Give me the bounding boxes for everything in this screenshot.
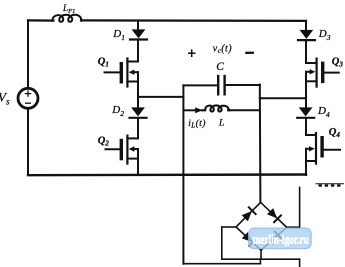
wire tank top branch right: [225, 84, 260, 86]
wire Q2 source to bottom rail: [137, 159, 139, 175]
wire bridge top-right edge: [261, 202, 287, 227]
label iL(t): [188, 118, 206, 130]
svg-text:vc(t): vc(t): [213, 43, 232, 55]
label D4: [317, 105, 330, 119]
svg-text:Q4: Q4: [329, 127, 341, 139]
svg-text:L: L: [218, 119, 224, 129]
diode D2: [131, 107, 145, 116]
wire bridge bottom-right edge: [261, 227, 287, 250]
label minus vc: [246, 52, 252, 54]
wire tank bottom branch right: [228, 109, 260, 111]
wire tank left bottom return: [183, 263, 260, 265]
wire D3 cathode to Q3 drain: [305, 41, 307, 63]
svg-text:Q2: Q2: [98, 135, 110, 147]
wire bottom rail: [28, 173, 306, 176]
wire left column lower: [27, 108, 29, 175]
wire Q4 source to bottom rail: [305, 161, 307, 175]
bridge diode bottom-right: [267, 231, 281, 245]
wire tank left vertical: [182, 85, 184, 263]
label Q1: [98, 56, 109, 68]
current arrow iL: [195, 107, 202, 113]
bridge diode bottom-left: [242, 232, 256, 246]
svg-text:D1: D1: [112, 28, 125, 42]
svg-text:C: C: [216, 61, 224, 73]
wire bridge right vertex horizontal: [287, 226, 300, 228]
label Q2: [98, 135, 110, 147]
svg-text:merlin-igor.ru: merlin-igor.ru: [253, 232, 309, 247]
wire bridge top-left edge: [236, 202, 261, 227]
label D1: [112, 28, 125, 42]
transistor Q2: [106, 136, 139, 164]
svg-text:D3: D3: [318, 28, 331, 42]
transistor Q4: [306, 133, 340, 164]
label D3: [318, 28, 331, 42]
transistor Q3: [306, 59, 339, 87]
wire bridge bottom bus right drop: [299, 259, 301, 266]
continuation dashes right edge: [316, 184, 344, 187]
voltage source Vs: [18, 88, 38, 108]
wire bridge left vertex loop vertical: [221, 227, 223, 259]
label LF1: [62, 3, 75, 15]
diode D1: [132, 29, 146, 38]
wire bridge bottom bus: [222, 258, 300, 260]
wire bridge right vertex riser: [299, 187, 301, 227]
wire tank right vertical to bridge: [259, 85, 262, 203]
wire D1 cathode to Q1 drain: [137, 41, 139, 62]
wire D3 anode: [305, 21, 307, 30]
wire bridge left vertex loop horizontal: [222, 226, 236, 228]
wire D1 anode: [137, 21, 139, 30]
label L: [218, 119, 224, 129]
capacitor C: [218, 76, 224, 94]
svg-text:LF1: LF1: [62, 3, 75, 15]
label D2: [111, 104, 124, 118]
svg-text:D4: D4: [317, 105, 330, 119]
watermark text: [253, 232, 309, 247]
label Q3: [332, 56, 344, 68]
svg-text:iL(t): iL(t): [188, 118, 206, 130]
inductor LF1: [52, 15, 81, 22]
svg-text:D2: D2: [111, 104, 124, 118]
wire tank left bottom return upturn: [259, 259, 261, 264]
wire top rail right segment: [81, 19, 306, 22]
diode D3: [300, 30, 314, 39]
svg-text:Q1: Q1: [98, 56, 109, 68]
inductor L: [202, 105, 230, 111]
wire top rail left segment: [28, 19, 54, 21]
watermark box: [249, 228, 312, 249]
wire Q1 source to node A: [137, 82, 139, 108]
label plus vc: [189, 50, 195, 56]
wire node A to tank left: [138, 96, 183, 98]
transistor Q1: [105, 59, 139, 87]
wire bridge bottom vertex drop: [260, 250, 262, 259]
wire tank top branch left: [183, 84, 218, 86]
label vc(t): [213, 43, 232, 55]
bridge diode top-right: [267, 208, 281, 222]
diode D4: [299, 107, 313, 116]
svg-text:Q3: Q3: [332, 56, 344, 68]
label Q4: [329, 127, 341, 139]
wire node B to tank right: [260, 97, 306, 99]
label C: [216, 61, 224, 73]
wire left column upper: [27, 20, 29, 88]
svg-text:Vs: Vs: [0, 90, 10, 107]
wire D4 cathode to Q4 drain: [305, 119, 307, 135]
wire tank bottom branch left with current arrow: [183, 109, 196, 111]
bridge diode top-left: [241, 207, 255, 221]
label Vs: [0, 90, 10, 107]
wire bridge bottom-left edge: [236, 227, 261, 250]
wire D2 cathode to Q2 drain: [137, 119, 139, 139]
wire Q3 source to node B: [305, 81, 307, 108]
